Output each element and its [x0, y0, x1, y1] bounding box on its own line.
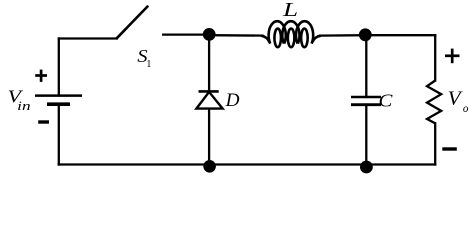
svg-text:D: D — [225, 90, 240, 111]
svg-text:1: 1 — [146, 59, 151, 70]
svg-text:C: C — [379, 91, 394, 111]
svg-text:in: in — [17, 99, 30, 113]
svg-text:o: o — [463, 101, 469, 115]
svg-text:V: V — [448, 89, 463, 110]
svg-text:L: L — [282, 0, 298, 21]
